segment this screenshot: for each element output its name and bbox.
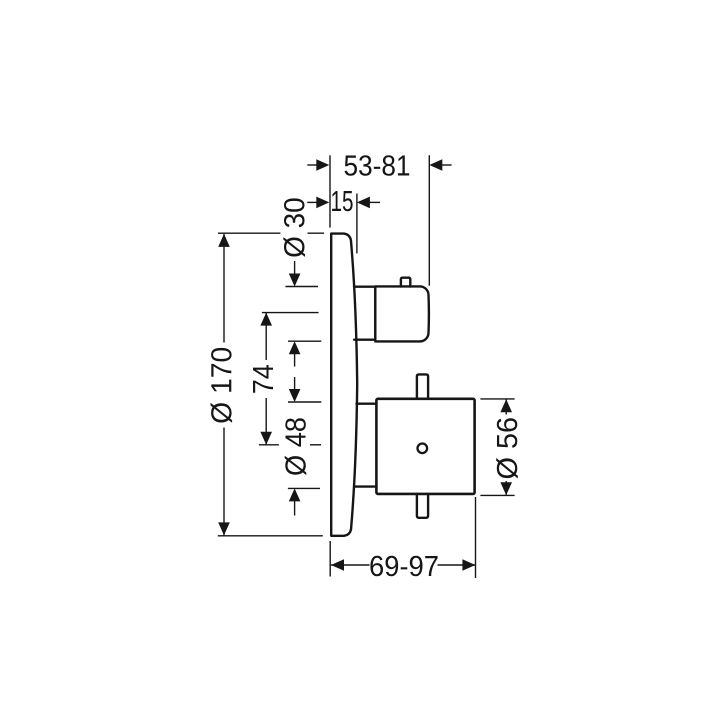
O30 ticks [286,286,319,288]
69-97 extension lines [329,541,331,577]
label O30 (rotated) [283,198,305,257]
53-81 stems [307,164,318,166]
O170 top arrow [218,234,230,247]
dimension labels [211,155,518,576]
label O56 (rotated) [496,418,518,478]
product outlines [331,234,474,536]
square volume handle [376,399,474,494]
O170 extension lines [218,232,280,234]
74 dimension line [265,313,267,360]
handle centre pin [418,444,428,454]
O56 bottom arrow [500,482,512,495]
extension wall line left of plate (53-81 / 15) [329,155,331,227]
74 ticks [262,312,319,314]
label 53-81 [345,155,410,176]
O30 stems [294,261,296,275]
dimension thin lines [218,155,515,578]
O48 ticks [288,401,321,403]
lever bar top [417,374,428,398]
thermostat knob neck [354,287,375,340]
O48 top arrow [289,389,301,402]
15 left arrow [316,197,329,209]
lower sleeve [354,404,376,487]
69-97 right arrow [462,559,475,571]
label O170 (rotated) [211,348,233,423]
extension line knob front (53-81 right) [428,155,430,285]
15 right arrow [357,197,370,209]
74 bottom arrow [260,432,272,445]
thermostat knob body [375,286,429,341]
O48 stems [294,377,296,390]
label 74 (rotated) [253,365,273,393]
O48 bottom arrow [289,488,301,501]
label 69-97 [370,556,437,577]
O56 top arrow [500,399,512,412]
knob top button [401,278,410,287]
53-81 left arrow [316,159,329,171]
O170 bottom arrow [218,522,230,535]
label 15 [332,191,353,211]
O30 bottom arrow [289,341,301,354]
69-97 dimension line [331,564,370,566]
extension line plate front (15 right) [356,194,358,254]
O30 top arrow [289,274,301,287]
escutcheon plate (side view) [331,234,357,536]
lever bar bottom [417,494,428,518]
arrowheads [218,159,512,571]
15 stems [307,201,318,203]
74 top arrow [260,313,272,326]
label O48 (rotated) [285,418,307,475]
O170 dimension line [223,234,225,343]
69-97 left arrow [331,559,344,571]
53-81 right arrow [429,159,442,171]
O56 dimension line [505,399,507,414]
O56 extension lines [480,398,514,400]
